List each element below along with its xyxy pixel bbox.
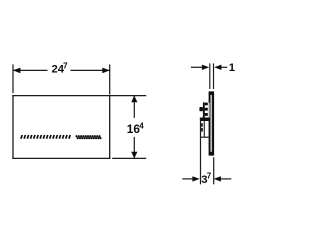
svg-text:4: 4: [139, 121, 144, 130]
side view: plate grey core: [210, 95, 212, 152]
frame side clip (left bump): [199, 107, 203, 111]
width dimension arrowhead left: [13, 68, 20, 74]
frame inner vertical line: [203, 121, 205, 137]
frame comb tooth 1: [205, 103, 208, 106]
depth dimension: left arrow (points right): [182, 178, 194, 180]
side view: extension lines above plate (plate thickness): [209, 63, 211, 89]
width dimension arrowhead right: [102, 68, 109, 74]
frame grey zone against plate: [208, 103, 210, 118]
width dimension line left segment: [13, 69, 48, 71]
side view: plate (profile, dark outline): [209, 91, 215, 155]
front view plate: left edge: [12, 95, 14, 159]
height dimension line bottom segment: [133, 137, 135, 159]
front view plate: right edge: [109, 95, 111, 159]
depth dimension: right arrow (points left): [219, 178, 231, 180]
svg-text:7: 7: [63, 61, 68, 70]
bottom extension line for height dimension: [112, 157, 146, 159]
height dimension arrowhead down: [131, 152, 137, 159]
height dimension line top segment: [133, 96, 135, 118]
thickness dimension: left arrow (points right): [191, 66, 204, 68]
width dimension: right extension line: [109, 64, 111, 94]
frame comb spine: [203, 102, 205, 117]
sensor strip right segment (knurled chain, bottom row): [77, 137, 102, 139]
frame clip bump 1 (right of line): [201, 123, 203, 127]
height dimension arrowhead up: [131, 96, 137, 103]
front view plate: bottom edge: [12, 157, 110, 159]
svg-text:7: 7: [207, 171, 212, 180]
sensor strip left segment (diagonal hatch): [21, 135, 70, 139]
width dimension: left extension line: [12, 64, 14, 93]
frame comb tooth 2: [205, 108, 208, 111]
wall line below plate / right extension for depth dimension: [213, 157, 215, 184]
front view plate: top edge with extension to right dimension: [12, 95, 146, 97]
frame clip bump 2 (right of line): [201, 128, 203, 132]
width dimension line right segment: [71, 69, 110, 71]
sensor strip right segment (knurled chain, top row): [75, 135, 100, 137]
frame crossbar (dark block): [200, 118, 210, 122]
frame comb tooth 3: [205, 113, 208, 116]
frame left outline lower / extension to depth dimension: [200, 118, 202, 185]
thickness dimension: right arrow (points left): [220, 66, 228, 68]
frame bottom line: [201, 136, 210, 138]
svg-text:1: 1: [229, 62, 235, 74]
